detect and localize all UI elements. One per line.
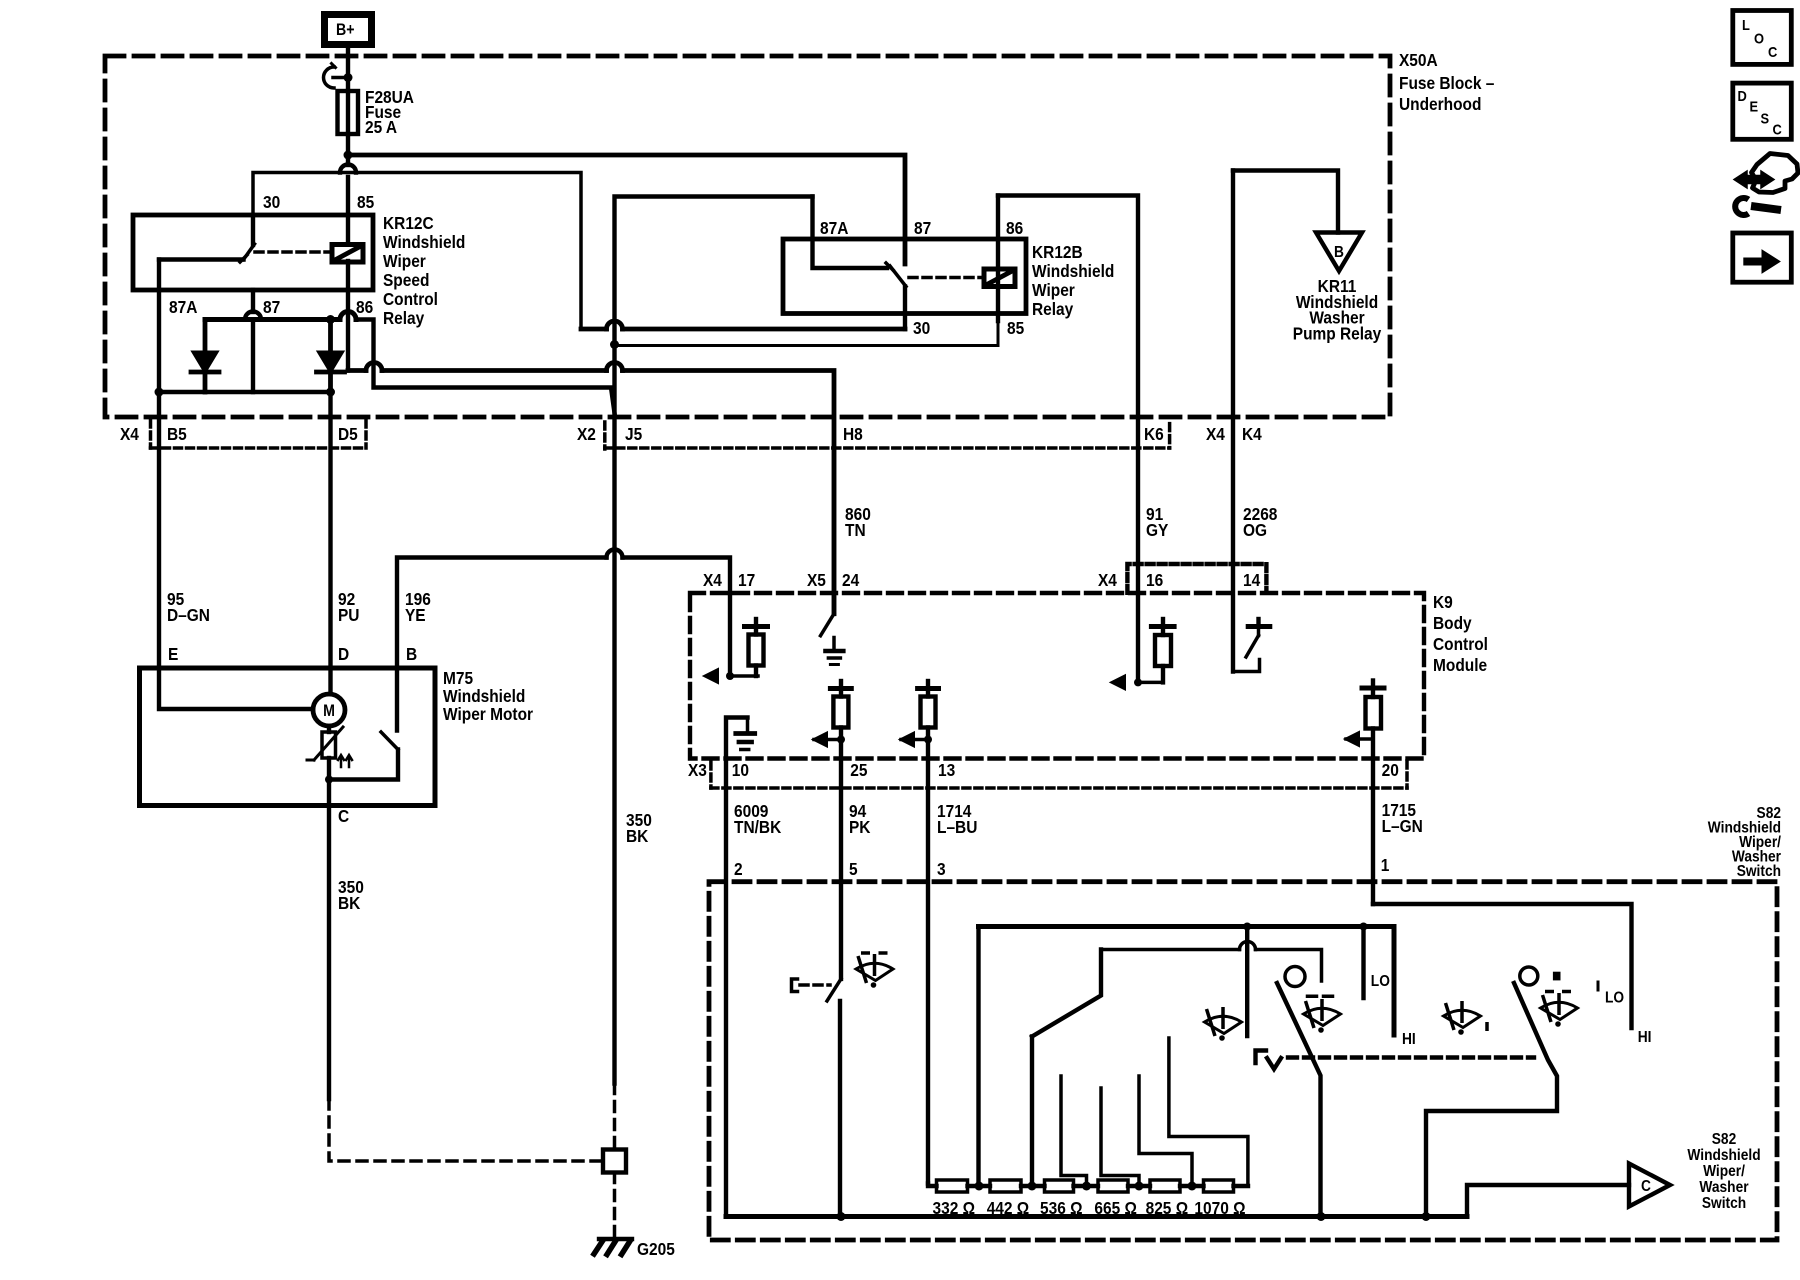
- svg-text:B+: B+: [336, 21, 355, 39]
- svg-text:OG: OG: [1243, 520, 1267, 540]
- svg-text:X3: X3: [688, 760, 707, 780]
- svg-text:Underhood: Underhood: [1399, 94, 1481, 114]
- svg-text:86: 86: [1006, 218, 1023, 238]
- svg-text:C: C: [1768, 43, 1777, 60]
- svg-text:K4: K4: [1242, 424, 1262, 444]
- svg-text:LO: LO: [1371, 972, 1390, 990]
- svg-text:GY: GY: [1146, 520, 1168, 540]
- svg-text:D–GN: D–GN: [167, 605, 210, 625]
- svg-text:E: E: [168, 644, 178, 664]
- svg-text:LO: LO: [1605, 989, 1624, 1007]
- svg-text:Control: Control: [383, 289, 438, 309]
- svg-text:665 Ω: 665 Ω: [1094, 1198, 1136, 1218]
- svg-text:3: 3: [937, 859, 946, 879]
- svg-text:Windshield: Windshield: [383, 232, 465, 252]
- svg-text:86: 86: [356, 297, 373, 317]
- svg-text:O: O: [1754, 30, 1764, 47]
- svg-text:14: 14: [1243, 570, 1261, 590]
- svg-text:Windshield: Windshield: [1032, 261, 1114, 281]
- svg-text:H8: H8: [843, 424, 863, 444]
- svg-text:Pump Relay: Pump Relay: [1293, 323, 1382, 343]
- svg-text:332 Ω: 332 Ω: [933, 1198, 975, 1218]
- svg-text:825 Ω: 825 Ω: [1146, 1198, 1188, 1218]
- svg-text:Control: Control: [1433, 634, 1488, 654]
- svg-text:Fuse Block –: Fuse Block –: [1399, 73, 1494, 93]
- svg-text:X4: X4: [120, 424, 140, 444]
- svg-text:442 Ω: 442 Ω: [987, 1198, 1029, 1218]
- svg-text:HI: HI: [1638, 1028, 1652, 1046]
- svg-text:PU: PU: [338, 605, 359, 625]
- svg-text:2: 2: [734, 859, 743, 879]
- svg-text:D5: D5: [338, 424, 358, 444]
- svg-text:X4: X4: [703, 570, 723, 590]
- svg-text:D: D: [1738, 87, 1747, 104]
- svg-text:G205: G205: [637, 1239, 675, 1259]
- svg-text:87A: 87A: [820, 218, 848, 238]
- svg-text:E: E: [1750, 98, 1759, 115]
- svg-text:K9: K9: [1433, 592, 1453, 612]
- svg-text:25: 25: [850, 760, 867, 780]
- svg-text:X5: X5: [807, 570, 826, 590]
- svg-text:B: B: [406, 644, 417, 664]
- svg-text:TN: TN: [845, 520, 866, 540]
- svg-text:30: 30: [263, 192, 280, 212]
- svg-text:BK: BK: [338, 893, 360, 913]
- svg-text:HI: HI: [1402, 1030, 1416, 1048]
- svg-text:17: 17: [738, 570, 755, 590]
- svg-text:M: M: [323, 702, 335, 720]
- svg-text:Wiper: Wiper: [383, 251, 426, 271]
- svg-text:J5: J5: [625, 424, 642, 444]
- svg-text:C: C: [338, 806, 349, 826]
- svg-text:KR12C: KR12C: [383, 213, 434, 233]
- svg-text:B: B: [1334, 243, 1344, 261]
- svg-text:16: 16: [1146, 570, 1163, 590]
- svg-text:Speed: Speed: [383, 270, 429, 290]
- svg-text:87: 87: [914, 218, 931, 238]
- svg-text:TN/BK: TN/BK: [734, 817, 781, 837]
- svg-text:L–BU: L–BU: [937, 817, 977, 837]
- svg-text:PK: PK: [849, 817, 870, 837]
- svg-text:Module: Module: [1433, 655, 1487, 675]
- svg-text:1: 1: [1381, 855, 1390, 875]
- svg-text:D: D: [338, 644, 349, 664]
- svg-text:13: 13: [938, 760, 955, 780]
- svg-text:Body: Body: [1433, 613, 1472, 633]
- svg-text:K6: K6: [1144, 424, 1164, 444]
- svg-text:20: 20: [1382, 760, 1399, 780]
- svg-text:10: 10: [732, 760, 749, 780]
- svg-text:YE: YE: [405, 605, 426, 625]
- svg-text:X4: X4: [1206, 424, 1226, 444]
- svg-text:5: 5: [849, 859, 858, 879]
- svg-text:C: C: [1641, 1177, 1651, 1195]
- svg-text:Relay: Relay: [1032, 299, 1074, 319]
- svg-text:L: L: [1742, 16, 1750, 33]
- svg-text:30: 30: [913, 318, 930, 338]
- svg-text:X50A: X50A: [1399, 50, 1438, 70]
- svg-text:C: C: [1773, 121, 1782, 138]
- svg-text:L–GN: L–GN: [1382, 816, 1423, 836]
- svg-text:87A: 87A: [169, 297, 197, 317]
- svg-text:85: 85: [1007, 318, 1024, 338]
- svg-text:25 A: 25 A: [365, 117, 397, 137]
- svg-text:X2: X2: [577, 424, 596, 444]
- svg-text:Switch: Switch: [1737, 862, 1781, 880]
- svg-text:KR12B: KR12B: [1032, 242, 1083, 262]
- svg-text:Wiper Motor: Wiper Motor: [443, 704, 533, 724]
- svg-text:Relay: Relay: [383, 308, 425, 328]
- svg-text:X4: X4: [1098, 570, 1118, 590]
- svg-text:85: 85: [357, 192, 374, 212]
- svg-text:1070 Ω: 1070 Ω: [1194, 1198, 1245, 1218]
- svg-text:87: 87: [263, 297, 280, 317]
- svg-text:S: S: [1761, 110, 1770, 127]
- svg-text:B5: B5: [167, 424, 187, 444]
- svg-text:BK: BK: [626, 826, 648, 846]
- svg-text:24: 24: [842, 570, 860, 590]
- svg-text:Wiper: Wiper: [1032, 280, 1075, 300]
- svg-text:Switch: Switch: [1702, 1194, 1746, 1212]
- svg-text:536 Ω: 536 Ω: [1040, 1198, 1082, 1218]
